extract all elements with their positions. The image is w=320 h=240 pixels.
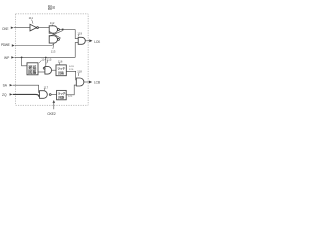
leader 115 bbox=[47, 61, 48, 64]
svg-text:121: 121 bbox=[68, 96, 73, 98]
svg-text:119: 119 bbox=[77, 31, 82, 35]
input CKE2 arrowhead bbox=[53, 100, 56, 103]
svg-text:回路: 回路 bbox=[58, 95, 64, 100]
input WP arrowhead bbox=[11, 56, 14, 58]
svg-text:回路: 回路 bbox=[28, 70, 37, 75]
figure title 図8 bbox=[48, 5, 56, 11]
svg-text:118: 118 bbox=[77, 69, 82, 73]
leader 113 bbox=[52, 45, 55, 49]
feedback diagonal A (112 out to 113 in) bbox=[49, 31, 62, 37]
AND gate 117 bbox=[40, 91, 48, 99]
wire WP down to AND115 bubble bbox=[45, 57, 47, 66]
svg-text:117: 117 bbox=[44, 85, 49, 89]
label 111 bbox=[29, 16, 34, 20]
svg-text:PDWE: PDWE bbox=[1, 43, 11, 47]
svg-text:111: 111 bbox=[29, 16, 34, 20]
wire delay box to AND115 lower input bbox=[38, 71, 45, 73]
svg-text:SCK: SCK bbox=[69, 66, 75, 68]
AND gate 115 bbox=[43, 67, 45, 69]
AND gate 118 bbox=[76, 78, 84, 86]
svg-text:LCK: LCK bbox=[94, 40, 101, 44]
svg-text:回路: 回路 bbox=[58, 70, 64, 75]
svg-text:ZQ: ZQ bbox=[2, 93, 7, 97]
svg-text:113: 113 bbox=[51, 49, 56, 53]
svg-text:CKE2: CKE2 bbox=[47, 112, 56, 116]
svg-text:SA: SA bbox=[3, 84, 8, 88]
feedback diagonal B (113 out to 112 in) bbox=[49, 31, 61, 38]
svg-text:WP: WP bbox=[4, 56, 10, 60]
wire AND119 output bbox=[85, 40, 89, 42]
label 116 bbox=[58, 59, 63, 63]
leader 112 bbox=[51, 24, 54, 25]
leader 119 bbox=[77, 35, 79, 37]
wire ZQ to AND117 lower input (thick) bbox=[13, 94, 40, 96]
svg-text:LCB: LCB bbox=[94, 80, 101, 84]
dashed boundary box bbox=[16, 14, 89, 105]
input SA label bbox=[3, 84, 8, 88]
output LCB label bbox=[94, 80, 101, 84]
label 119 bbox=[77, 31, 82, 35]
svg-text:116: 116 bbox=[58, 59, 63, 63]
input SA arrowhead bbox=[10, 84, 13, 86]
label 112 bbox=[50, 21, 55, 25]
leader 118 bbox=[77, 73, 80, 76]
wire AND119 bottom input from WP line bbox=[75, 43, 78, 58]
leader 114 bbox=[39, 61, 41, 63]
wire down to AND 119 top input bbox=[75, 30, 78, 39]
label 113 bbox=[51, 49, 56, 53]
input CKE2 label bbox=[47, 112, 56, 116]
output LCK label bbox=[94, 40, 101, 44]
inverter 111 bbox=[30, 24, 37, 31]
input CKE arrowhead bbox=[11, 27, 14, 29]
input CKE label bbox=[2, 27, 9, 31]
wire CKE to inverter bbox=[14, 27, 30, 29]
wire NAND112 output to junction and right bbox=[60, 29, 76, 31]
input CKE2 vertical wire bbox=[53, 103, 55, 110]
wire WP main horizontal bbox=[14, 56, 75, 58]
junction node after NAND112 bbox=[62, 29, 64, 31]
wire divider box output to AND118 lower input bbox=[66, 85, 76, 95]
wire inverter to NAND 112 bbox=[38, 27, 49, 29]
wire AND117 output to divider box bbox=[51, 94, 57, 96]
junction WP/delay bbox=[21, 57, 23, 59]
wire WP down to delay box bbox=[22, 57, 27, 65]
svg-text:図8: 図8 bbox=[48, 5, 56, 11]
wire PDWE to NAND113 lower input bbox=[15, 43, 54, 45]
leader 116 bbox=[58, 63, 61, 65]
latch circuit box 116 bbox=[56, 65, 66, 76]
output LCK arrowhead bbox=[89, 39, 92, 42]
svg-text:遅延: 遅延 bbox=[28, 65, 37, 70]
label 115 bbox=[47, 57, 52, 61]
label 117 bbox=[44, 85, 49, 89]
NAND gate 113 bbox=[49, 36, 57, 43]
NAND gate 112 bbox=[49, 26, 57, 33]
AND gate 119 bbox=[78, 37, 85, 44]
input ZQ label bbox=[2, 93, 7, 97]
input PDWE label bbox=[1, 43, 11, 47]
leader 111 bbox=[32, 20, 33, 24]
junction WP/and115 bbox=[45, 57, 47, 59]
wire SA to AND117 top input bbox=[13, 85, 40, 92]
delay circuit box 114 bbox=[27, 63, 38, 75]
svg-text:CKE: CKE bbox=[2, 27, 9, 31]
output LCB arrowhead bbox=[89, 81, 92, 84]
label 118 bbox=[77, 69, 82, 73]
wire AND118 output bbox=[84, 81, 89, 83]
svg-text:120: 120 bbox=[69, 69, 74, 71]
leader 117 bbox=[43, 89, 46, 91]
input ZQ arrowhead bbox=[10, 93, 13, 95]
node label SCK/120 bbox=[69, 66, 75, 71]
label 121 bbox=[68, 96, 73, 98]
wire latch output to AND118 top input bbox=[66, 71, 76, 80]
divider circuit box bbox=[57, 90, 67, 99]
input WP label bbox=[4, 56, 10, 60]
wire AND115 output to latch bbox=[52, 69, 56, 71]
label 114 bbox=[41, 57, 46, 61]
input PDWE arrowhead bbox=[12, 44, 15, 46]
